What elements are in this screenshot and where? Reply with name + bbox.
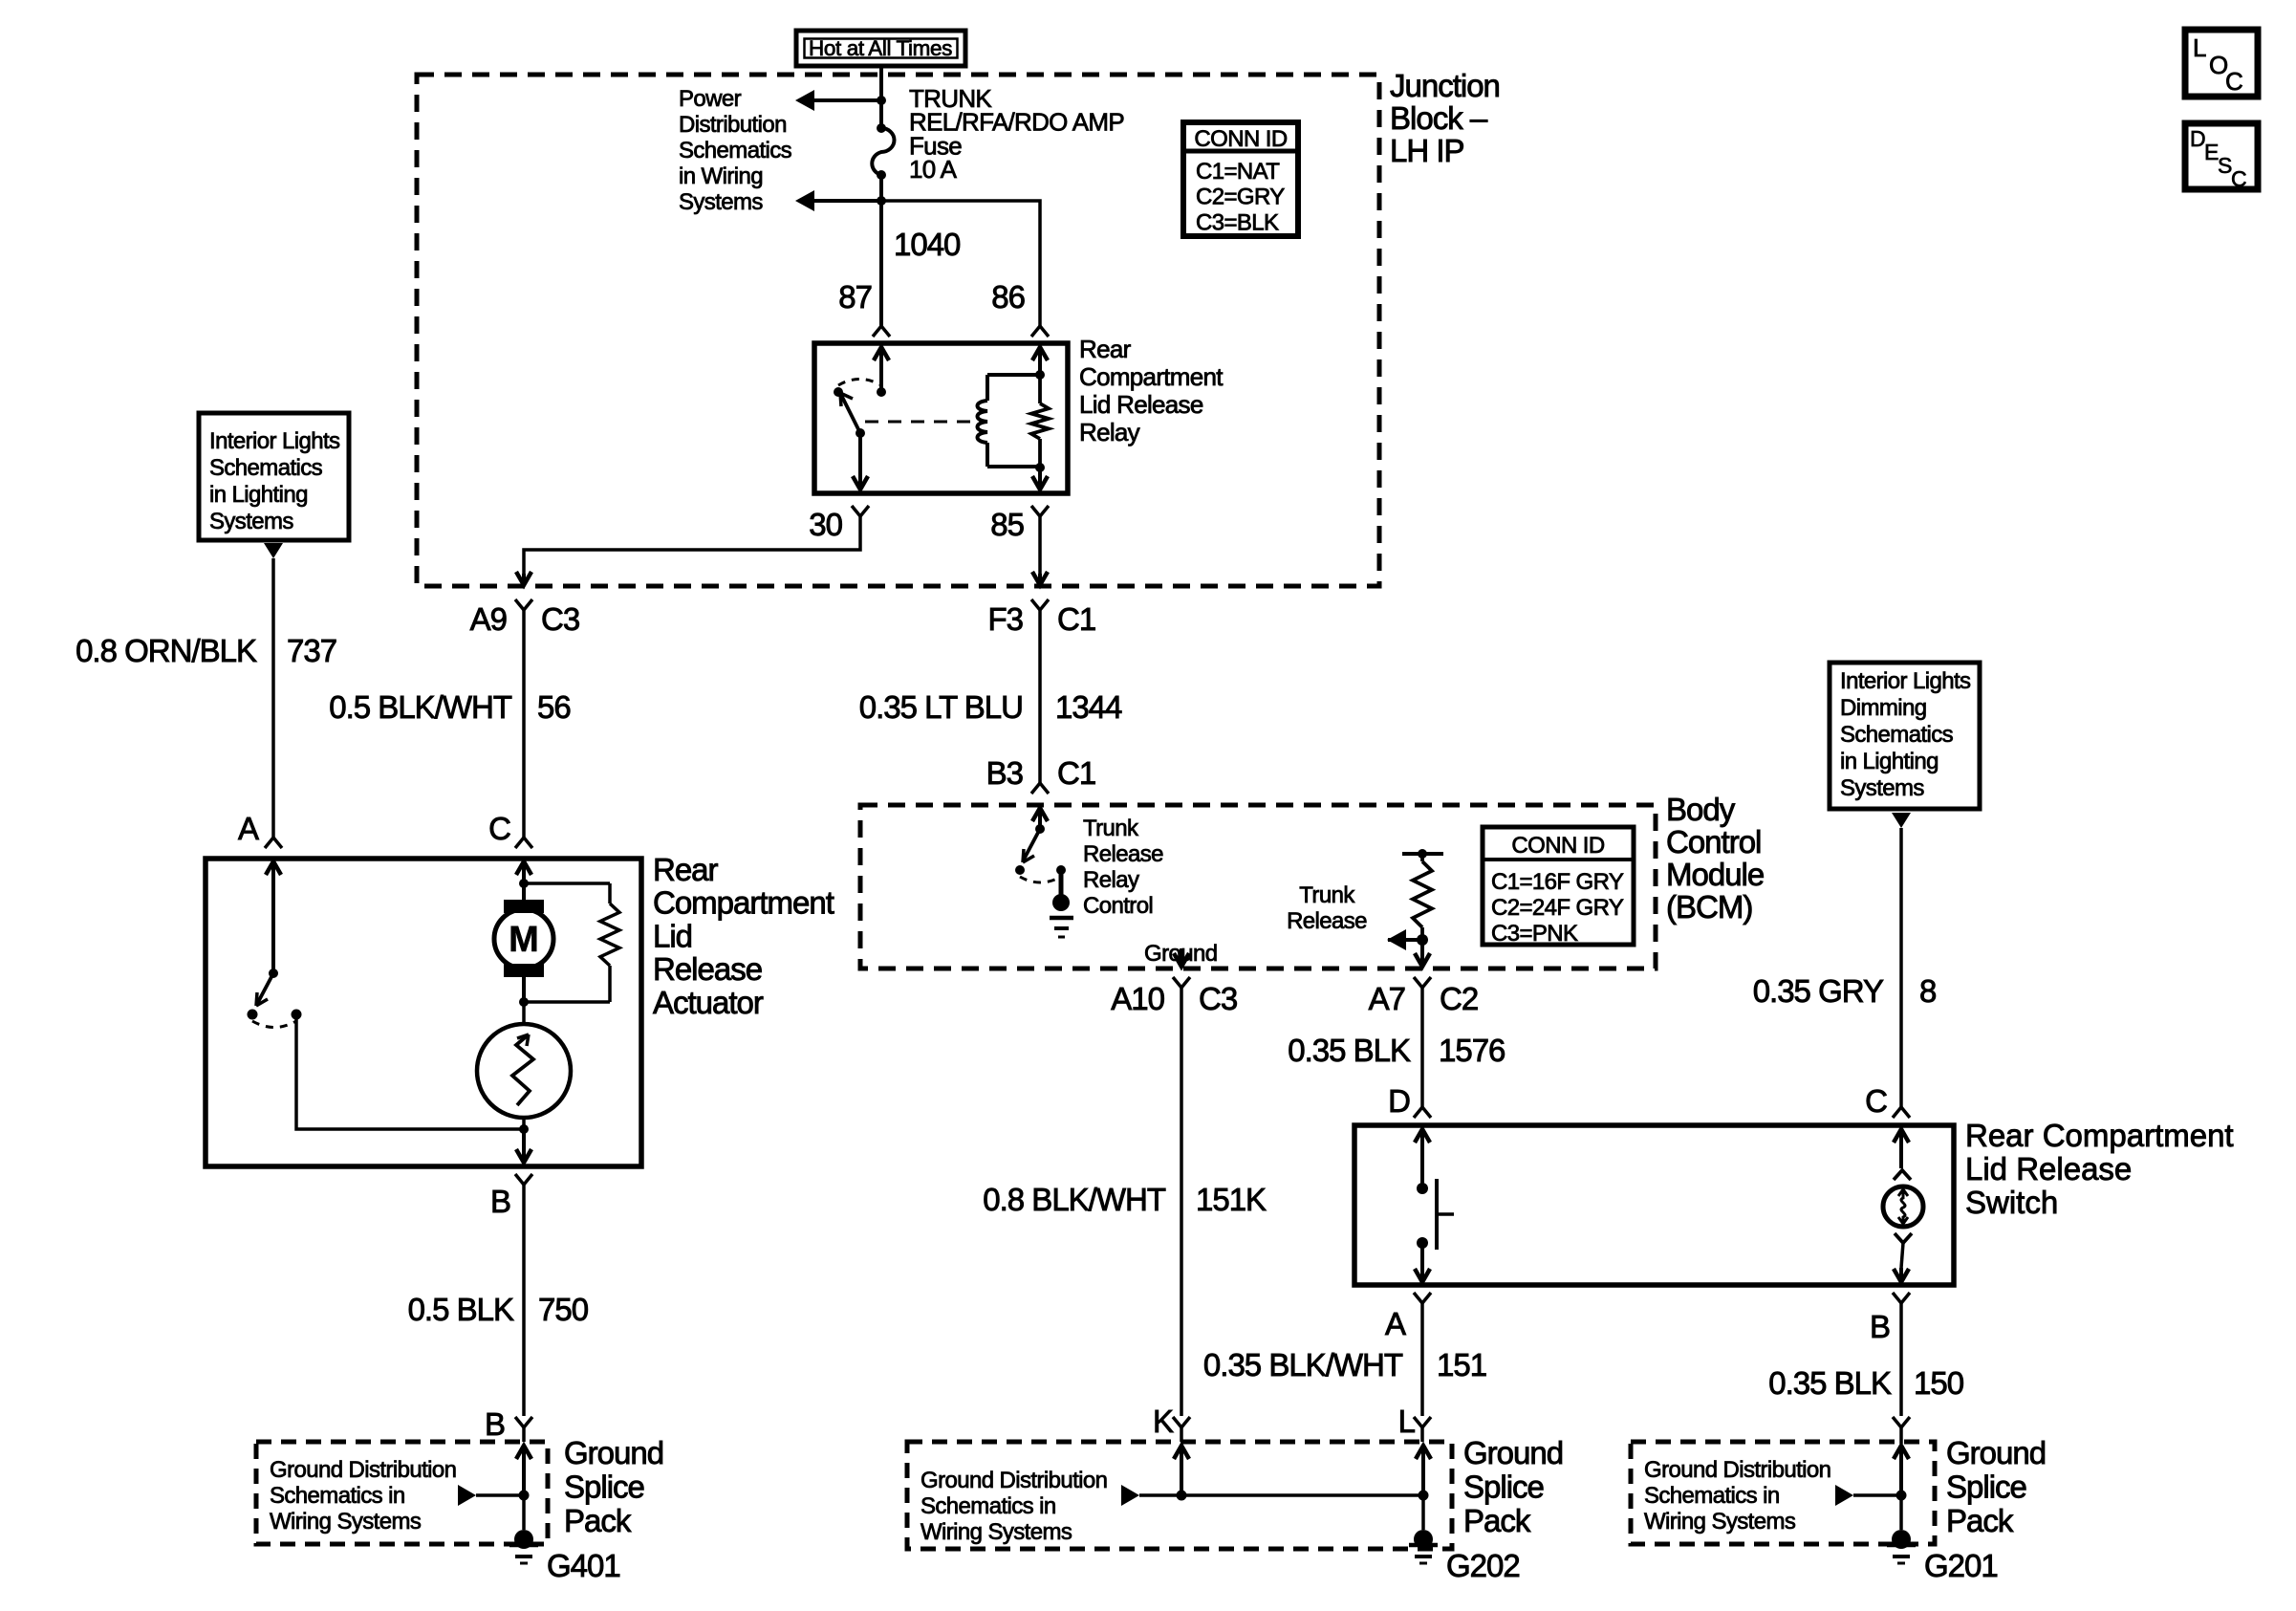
splice junction node at x=1489 (G202) bbox=[1419, 1491, 1429, 1501]
ground G201 bbox=[1892, 1530, 1911, 1549]
svg-text:Systems: Systems bbox=[209, 509, 293, 534]
relay switch pivot contact bbox=[834, 387, 843, 397]
svg-text:Rear: Rear bbox=[1079, 335, 1132, 363]
connector F3 / C1 bbox=[1031, 599, 1049, 610]
svg-text:151: 151 bbox=[1437, 1347, 1486, 1382]
actuator jamb switch pivot bbox=[269, 969, 278, 978]
wire: jamb switch return to pin B node bbox=[296, 1014, 524, 1129]
arrow at junction block exit F3 bbox=[1032, 572, 1048, 585]
actuator box: Rear Compartment Lid Release Actuator bbox=[206, 859, 641, 1166]
connector chevron at relay pin 86 bbox=[1031, 326, 1049, 337]
svg-text:Release: Release bbox=[1287, 908, 1367, 934]
svg-text:A: A bbox=[238, 811, 259, 846]
svg-text:in Lighting: in Lighting bbox=[1840, 749, 1939, 774]
svg-text:Junction: Junction bbox=[1390, 68, 1500, 103]
actuator jamb switch contact right bbox=[292, 1010, 302, 1020]
svg-text:Dimming: Dimming bbox=[1840, 695, 1926, 721]
svg-text:C3=BLK: C3=BLK bbox=[1196, 209, 1279, 235]
svg-text:0.35 BLK: 0.35 BLK bbox=[1768, 1365, 1892, 1401]
svg-text:Trunk: Trunk bbox=[1083, 816, 1139, 841]
svg-text:G201: G201 bbox=[1924, 1548, 1998, 1583]
connector chevron at relay pin 30 bbox=[852, 506, 869, 516]
svg-text:Control: Control bbox=[1083, 893, 1153, 919]
ground splice pack dashed box G201 bbox=[1631, 1442, 1935, 1544]
svg-text:150: 150 bbox=[1914, 1365, 1964, 1401]
junction block CONN ID table bbox=[1183, 122, 1298, 236]
connector chevron at switch pin A bbox=[1414, 1293, 1431, 1303]
svg-text:Control: Control bbox=[1666, 824, 1761, 860]
svg-text:0.8 ORN/BLK: 0.8 ORN/BLK bbox=[76, 633, 257, 668]
svg-text:L: L bbox=[2193, 33, 2206, 62]
relay switch movable arm bbox=[841, 395, 860, 433]
svg-text:G401: G401 bbox=[547, 1548, 620, 1583]
connector chevron above ground splice pack G401 bbox=[515, 1417, 532, 1427]
wire: circuit 1576 (0.35 BLK) bbox=[1420, 1015, 1424, 1107]
ground G202 bbox=[1414, 1530, 1433, 1549]
svg-text:(BCM): (BCM) bbox=[1666, 889, 1752, 925]
node: coil top bbox=[1035, 370, 1045, 380]
connector chevron above ground splice pack L bbox=[1414, 1417, 1431, 1427]
wire: relay pin 30 to junction block connector A9 bbox=[524, 516, 860, 574]
svg-text:A9: A9 bbox=[470, 601, 507, 637]
wire: fuse output down to relay pin 87 bbox=[879, 175, 883, 326]
svg-text:M: M bbox=[509, 920, 539, 960]
lamp socket chevron top bbox=[1894, 1170, 1911, 1180]
wire: switch pin A internal bbox=[1415, 1269, 1430, 1282]
arrow: ground distribution reference (G201) bbox=[1853, 1493, 1901, 1497]
ground splice pack dashed box G202 bbox=[907, 1442, 1452, 1549]
wire: circuit 150 (0.35 BLK) bbox=[1899, 1303, 1903, 1416]
connector B3 / C1 at BCM bbox=[1031, 783, 1049, 794]
node: junction at power distribution tap (lower) bbox=[877, 196, 886, 206]
svg-text:C1: C1 bbox=[1057, 601, 1095, 637]
svg-text:Ground Distribution: Ground Distribution bbox=[921, 1468, 1107, 1493]
svg-text:in Lighting: in Lighting bbox=[209, 482, 308, 508]
svg-text:CONN ID: CONN ID bbox=[1511, 833, 1604, 859]
lamp socket chevron bottom bbox=[1895, 1233, 1912, 1243]
svg-text:151K: 151K bbox=[1196, 1182, 1267, 1217]
connector chevron above ground splice pack K bbox=[1173, 1417, 1190, 1427]
svg-text:Release: Release bbox=[653, 951, 762, 987]
switch pushbutton contact top bbox=[1417, 1183, 1428, 1194]
BCM internal ground bbox=[1059, 870, 1064, 897]
svg-text:A10: A10 bbox=[1111, 981, 1164, 1016]
svg-text:Pack: Pack bbox=[564, 1503, 632, 1538]
node: coil bottom bbox=[1035, 463, 1045, 472]
wire: motor to thermal protector bbox=[522, 1002, 526, 1024]
svg-text:Schematics: Schematics bbox=[679, 138, 792, 163]
wire: relay pin 30 internal bbox=[853, 476, 868, 490]
svg-text:Rear Compartment: Rear Compartment bbox=[1965, 1118, 2234, 1153]
actuator pin A terminal arrow bbox=[266, 861, 281, 875]
arrow at junction block exit A9 bbox=[516, 572, 531, 585]
svg-text:C: C bbox=[488, 811, 510, 846]
BCM driver switch arc (dashed) bbox=[1020, 877, 1061, 882]
svg-text:A: A bbox=[1385, 1306, 1406, 1341]
ground splice pack dashed box G401 bbox=[256, 1442, 548, 1544]
svg-text:56: 56 bbox=[537, 689, 571, 725]
svg-text:Schematics in: Schematics in bbox=[921, 1493, 1056, 1519]
svg-text:Relay: Relay bbox=[1083, 867, 1139, 893]
wire: circuit 1344 (0.35 LT BLU) bbox=[1038, 633, 1042, 783]
svg-text:Systems: Systems bbox=[679, 189, 763, 215]
arrow: from Interior Lights Schematics bbox=[264, 543, 283, 558]
svg-text:Ground: Ground bbox=[1946, 1435, 2046, 1470]
svg-text:K: K bbox=[1153, 1404, 1174, 1439]
svg-text:Systems: Systems bbox=[1840, 775, 1924, 801]
arrow: ground distribution reference (G202) bbox=[1139, 1493, 1423, 1497]
wire: actuator pin B internal bbox=[516, 1149, 531, 1163]
connector chevron at actuator pin C bbox=[515, 838, 532, 848]
svg-text:Distribution: Distribution bbox=[679, 112, 787, 138]
wire: splice pack entry (G201 x=1989) bbox=[1894, 1446, 1909, 1459]
wire: splice to ground G201 bbox=[1899, 1495, 1903, 1530]
svg-text:E: E bbox=[2204, 140, 2219, 164]
svg-text:Wiring Systems: Wiring Systems bbox=[1644, 1509, 1796, 1535]
svg-text:CONN ID: CONN ID bbox=[1194, 126, 1287, 152]
switch pin C terminal arrow bbox=[1894, 1129, 1909, 1143]
svg-text:Power: Power bbox=[679, 86, 742, 112]
svg-text:Lid Release: Lid Release bbox=[1079, 390, 1203, 419]
svg-text:10 A: 10 A bbox=[909, 155, 958, 184]
wire: splice pack entry (G202 x=1236) bbox=[1174, 1446, 1189, 1459]
switch pushbutton contact bottom bbox=[1417, 1237, 1428, 1249]
splice junction node at x=1989 (G201) bbox=[1896, 1491, 1907, 1501]
svg-text:C3=PNK: C3=PNK bbox=[1491, 921, 1578, 947]
svg-text:Schematics: Schematics bbox=[1840, 722, 1954, 748]
actuator jamb switch contact left bbox=[248, 1010, 258, 1020]
connector chevron at switch pin B bbox=[1893, 1293, 1910, 1303]
svg-text:Wiring Systems: Wiring Systems bbox=[270, 1509, 422, 1535]
wire: thermal protector to pin B bbox=[522, 1118, 526, 1129]
actuator motor M bbox=[504, 900, 544, 913]
svg-text:87: 87 bbox=[838, 279, 872, 315]
relay coil suppression resistor bbox=[1038, 375, 1042, 403]
BCM driver switch arm bbox=[1024, 829, 1040, 860]
svg-text:Splice: Splice bbox=[1463, 1469, 1544, 1505]
reference box: Interior Lights Dimming Schematics in Lighting Systems bbox=[1830, 663, 1980, 809]
LOC reference box bbox=[2185, 30, 2258, 97]
svg-text:C: C bbox=[2225, 67, 2242, 96]
wire: relay pin 85 internal bbox=[1032, 476, 1048, 490]
svg-text:85: 85 bbox=[990, 507, 1024, 542]
BCM driver switch pivot bbox=[1035, 824, 1045, 834]
svg-text:Ground: Ground bbox=[1463, 1435, 1563, 1470]
svg-text:Hot at All Times: Hot at All Times bbox=[809, 36, 952, 60]
svg-text:Module: Module bbox=[1666, 857, 1764, 892]
connector A7 / C2 bbox=[1414, 977, 1431, 988]
connector chevron above ground splice pack G201 bbox=[1893, 1417, 1910, 1427]
relay switch output node bbox=[856, 428, 865, 438]
svg-text:0.35 BLK/WHT: 0.35 BLK/WHT bbox=[1203, 1347, 1403, 1382]
svg-text:0.5 BLK/WHT: 0.5 BLK/WHT bbox=[329, 689, 512, 725]
svg-text:Splice: Splice bbox=[564, 1469, 644, 1505]
relay switch throw arc (dashed) bbox=[838, 380, 881, 386]
wire: circuit 750 (0.5 BLK) bbox=[522, 1185, 526, 1416]
svg-text:F3: F3 bbox=[987, 601, 1023, 637]
connector A10 / C3 bbox=[1173, 977, 1190, 988]
actuator pin C terminal arrow bbox=[516, 861, 531, 875]
svg-text:C3: C3 bbox=[541, 601, 579, 637]
switch box: Rear Compartment Lid Release Switch bbox=[1354, 1125, 1954, 1285]
svg-text:Schematics in: Schematics in bbox=[270, 1483, 405, 1509]
junction block dashed box (Junction Block - LH IP) bbox=[417, 75, 1379, 586]
wire: relay pin 85 to junction block connector F3 bbox=[1038, 516, 1042, 574]
svg-text:C1: C1 bbox=[1057, 755, 1095, 791]
svg-text:C: C bbox=[1865, 1083, 1887, 1119]
svg-text:D: D bbox=[2190, 126, 2205, 151]
svg-text:L: L bbox=[1398, 1404, 1416, 1439]
node: trunk release sense bbox=[1417, 934, 1428, 946]
svg-text:LH IP: LH IP bbox=[1390, 133, 1464, 168]
svg-text:Interior Lights: Interior Lights bbox=[1840, 668, 1971, 694]
connector chevron at switch pin C bbox=[1893, 1107, 1910, 1118]
svg-text:C1=16F GRY: C1=16F GRY bbox=[1491, 869, 1624, 895]
svg-text:Block –: Block – bbox=[1390, 100, 1488, 136]
svg-text:Ground: Ground bbox=[564, 1435, 663, 1470]
BCM CONN ID table bbox=[1483, 827, 1634, 945]
fuse: TRUNK REL/RFA/RDO AMP Fuse 10 A bbox=[877, 123, 886, 133]
svg-text:C1=NAT: C1=NAT bbox=[1196, 159, 1280, 185]
svg-text:Body: Body bbox=[1666, 792, 1736, 827]
node: pull-up top bbox=[1418, 849, 1427, 859]
svg-text:Trunk: Trunk bbox=[1299, 882, 1355, 908]
wire: splice pack entry (G202 x=1489) bbox=[1416, 1446, 1431, 1459]
node: motor top bbox=[519, 879, 529, 888]
wire: circuit 737 (0.8 ORN/BLK) bbox=[271, 558, 275, 838]
svg-text:Lid: Lid bbox=[653, 918, 692, 953]
splice junction node at x=548 (G401) bbox=[519, 1491, 530, 1501]
arrow: Trunk Release signal bbox=[1388, 938, 1422, 942]
svg-text:Ground Distribution: Ground Distribution bbox=[1644, 1457, 1830, 1483]
connector chevron at switch pin D bbox=[1414, 1107, 1431, 1118]
actuator jamb switch arm bbox=[257, 973, 273, 1004]
wire: splice pack entry (G401 x=548) bbox=[516, 1446, 531, 1459]
reference box: Interior Lights Schematics in Lighting Systems bbox=[199, 413, 349, 540]
Hot at All Times box bbox=[796, 31, 965, 66]
svg-text:30: 30 bbox=[809, 507, 842, 542]
svg-text:Ground Distribution: Ground Distribution bbox=[270, 1457, 456, 1483]
svg-text:Compartment: Compartment bbox=[1079, 362, 1224, 391]
wire: circuit 56 (0.5 BLK/WHT) bbox=[522, 633, 526, 838]
relay pin 87 terminal arrow bbox=[874, 347, 889, 360]
arrow: ground distribution reference (G401) bbox=[476, 1493, 524, 1497]
svg-text:Compartment: Compartment bbox=[653, 885, 834, 921]
mechanical link relay switch to coil (dashed) bbox=[865, 421, 970, 424]
node: actuator pin B junction bbox=[519, 1124, 529, 1134]
wire: splice to ground G401 bbox=[522, 1495, 526, 1530]
svg-text:86: 86 bbox=[991, 279, 1025, 315]
svg-text:Schematics in: Schematics in bbox=[1644, 1483, 1780, 1509]
svg-text:C2=GRY: C2=GRY bbox=[1196, 185, 1285, 210]
svg-text:B: B bbox=[490, 1184, 510, 1219]
svg-text:Pack: Pack bbox=[1946, 1503, 2014, 1538]
svg-text:1344: 1344 bbox=[1055, 689, 1122, 725]
arrow: reference to Power Distribution Schematics (upper) bbox=[812, 98, 881, 102]
DESC reference box bbox=[2185, 123, 2258, 189]
svg-text:S: S bbox=[2218, 153, 2232, 178]
svg-text:8: 8 bbox=[1919, 973, 1936, 1009]
svg-text:0.35 BLK: 0.35 BLK bbox=[1288, 1033, 1411, 1068]
connector A9 / C3 bbox=[515, 599, 532, 610]
switch pushbutton actuator bbox=[1435, 1179, 1439, 1250]
node: junction at power distribution tap (upper) bbox=[877, 96, 886, 105]
BCM trunk release relay control input arrow bbox=[1032, 808, 1048, 821]
relay coil terminal arrow from pin 86 bbox=[1032, 347, 1048, 360]
svg-text:Actuator: Actuator bbox=[653, 985, 764, 1020]
svg-text:0.8 BLK/WHT: 0.8 BLK/WHT bbox=[983, 1182, 1166, 1217]
svg-text:Pack: Pack bbox=[1463, 1503, 1531, 1538]
switch illumination lamp bbox=[1883, 1186, 1923, 1227]
wire: branch to relay pin 86 bbox=[881, 201, 1040, 326]
wire: BCM ground output A10 bbox=[1174, 953, 1189, 967]
BCM driver switch contact left bbox=[1015, 865, 1025, 875]
svg-text:in Wiring: in Wiring bbox=[679, 163, 763, 189]
svg-text:Wiring Systems: Wiring Systems bbox=[921, 1519, 1072, 1545]
connector chevron at actuator pin A bbox=[265, 838, 282, 848]
svg-text:D: D bbox=[1388, 1083, 1410, 1119]
BCM dashed box: Body Control Module bbox=[860, 805, 1656, 969]
svg-text:C: C bbox=[2231, 166, 2246, 191]
svg-text:A7: A7 bbox=[1369, 981, 1405, 1016]
actuator jamb switch arc (dashed) bbox=[252, 1021, 296, 1028]
ground G401 bbox=[514, 1530, 533, 1549]
svg-text:B: B bbox=[1870, 1309, 1890, 1344]
node: motor bottom bbox=[519, 997, 529, 1007]
svg-text:C3: C3 bbox=[1199, 981, 1237, 1016]
splice junction node at x=1236 (G202) bbox=[1177, 1491, 1187, 1501]
connector chevron at relay pin 87 bbox=[873, 326, 890, 337]
connector chevron at actuator pin B bbox=[515, 1174, 532, 1185]
svg-text:0.5 BLK: 0.5 BLK bbox=[408, 1292, 514, 1327]
relay switch common node bbox=[877, 387, 886, 397]
svg-text:B: B bbox=[485, 1406, 505, 1442]
wire: circuit 151 (0.35 BLK/WHT) bbox=[1420, 1303, 1424, 1416]
svg-text:G202: G202 bbox=[1446, 1548, 1520, 1583]
svg-text:Rear: Rear bbox=[653, 852, 719, 887]
actuator thermal protector (circuit breaker) bbox=[477, 1024, 571, 1118]
svg-text:B3: B3 bbox=[986, 755, 1023, 791]
BCM trunk release input pull-up bar bbox=[1402, 852, 1443, 856]
svg-text:750: 750 bbox=[538, 1292, 589, 1327]
svg-text:Switch: Switch bbox=[1965, 1185, 2058, 1220]
wire: circuit 8 (0.35 GRY) bbox=[1899, 828, 1903, 1107]
svg-text:Splice: Splice bbox=[1946, 1469, 2026, 1505]
arrow: from Interior Lights Dimming Schematics bbox=[1892, 813, 1911, 828]
svg-text:1576: 1576 bbox=[1439, 1033, 1505, 1068]
relay coil bbox=[987, 373, 1040, 377]
svg-text:Schematics: Schematics bbox=[209, 455, 323, 481]
connector chevron at relay pin 85 bbox=[1031, 506, 1049, 516]
svg-text:Interior Lights: Interior Lights bbox=[209, 428, 340, 454]
svg-text:0.35 GRY: 0.35 GRY bbox=[1753, 973, 1884, 1009]
wire: battery feed from Hot at All Times into junction block bbox=[879, 66, 883, 128]
svg-text:Relay: Relay bbox=[1079, 418, 1140, 446]
arrow: reference to Power Distribution Schematics (lower) bbox=[812, 199, 881, 203]
svg-text:737: 737 bbox=[287, 633, 336, 668]
svg-text:Lid Release: Lid Release bbox=[1965, 1151, 2132, 1186]
BCM driver switch contact right bbox=[1056, 865, 1066, 875]
wire: BCM trunk release output A7 bbox=[1415, 953, 1430, 967]
svg-text:0.35 LT BLU: 0.35 LT BLU bbox=[859, 689, 1023, 725]
BCM trunk release input resistor bbox=[1420, 854, 1424, 861]
wire: switch pin B internal bbox=[1901, 1243, 1903, 1268]
relay box: Rear Compartment Lid Release Relay bbox=[814, 343, 1068, 493]
svg-text:C2=24F GRY: C2=24F GRY bbox=[1491, 895, 1624, 921]
wire: circuit 151K (0.8 BLK/WHT) bbox=[1180, 1012, 1183, 1416]
wire: splice to ground G202 bbox=[1421, 1495, 1425, 1530]
actuator shunt resistor bbox=[524, 882, 610, 885]
switch pin D terminal arrow bbox=[1415, 1129, 1430, 1143]
svg-text:1040: 1040 bbox=[894, 227, 961, 262]
svg-text:C2: C2 bbox=[1440, 981, 1478, 1016]
svg-text:Release: Release bbox=[1083, 841, 1163, 867]
